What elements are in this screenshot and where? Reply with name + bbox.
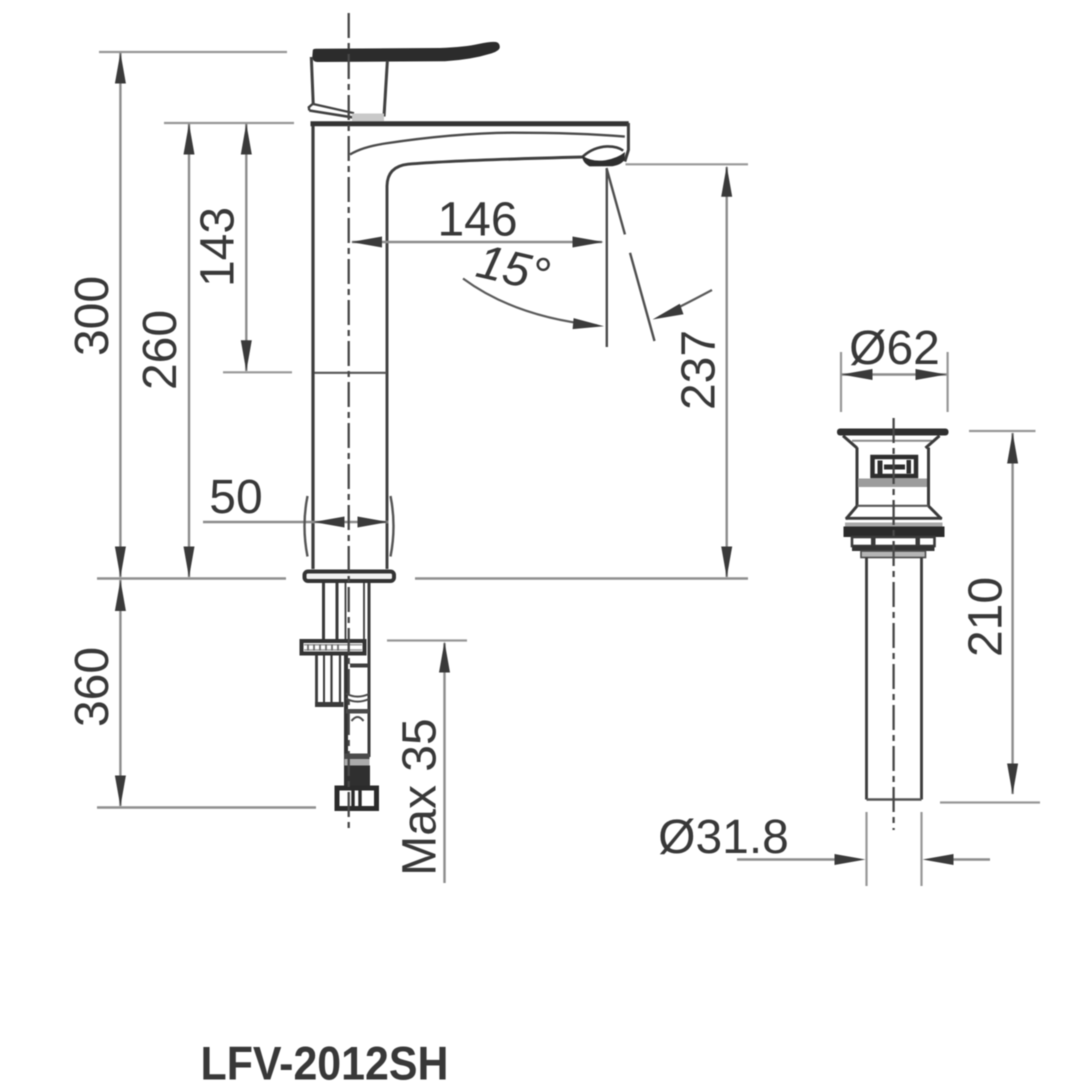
spout nozzle — [583, 146, 623, 156]
mounting hole arcs — [305, 496, 308, 557]
gray band under window — [858, 479, 927, 488]
dimension ticks top left — [99, 51, 287, 53]
svg-text:360: 360 — [66, 647, 119, 727]
faucet body column left edge — [311, 126, 314, 569]
water stream 15 deg dashed line — [607, 168, 655, 341]
dimension Max 35 — [387, 639, 467, 641]
dimension 146 line — [352, 241, 602, 243]
dimension 260 — [188, 124, 190, 577]
faucet centerline — [348, 13, 350, 831]
handle neck shade — [352, 114, 384, 122]
spout arm top bar — [311, 121, 629, 126]
drain throat walls — [857, 448, 929, 507]
dimension 237 — [626, 163, 749, 165]
flare — [846, 506, 942, 519]
dimension 143 — [245, 124, 247, 371]
svg-text:210: 210 — [960, 577, 1013, 657]
hose hex nut — [337, 788, 377, 809]
svg-text:237: 237 — [673, 330, 726, 410]
dimension 300 — [119, 53, 121, 577]
drain centerline — [892, 418, 894, 830]
tailpipe — [867, 558, 922, 800]
svg-text:146: 146 — [437, 194, 517, 247]
svg-text:300: 300 — [66, 276, 119, 356]
water stream extension line — [606, 169, 608, 347]
drain flange top — [837, 429, 949, 436]
faucet body right edge and spout underside — [387, 157, 583, 569]
spout inner upper line — [350, 133, 625, 155]
escutcheon base plate — [305, 572, 395, 582]
dimension O62 — [841, 352, 948, 412]
under-counter tubes — [324, 583, 370, 757]
svg-text:143: 143 — [192, 207, 245, 287]
dimension O31.8 — [867, 812, 922, 886]
svg-text:Ø31.8: Ø31.8 — [658, 811, 789, 864]
faucet handle base — [309, 57, 388, 118]
dimension 360 — [119, 580, 121, 806]
faucet handle lever — [312, 42, 500, 62]
svg-text:Ø62: Ø62 — [849, 322, 940, 375]
svg-text:Max 35: Max 35 — [394, 718, 447, 875]
spout right edge — [625, 123, 629, 162]
countertop lines — [97, 577, 286, 580]
angle arc left — [463, 279, 597, 326]
svg-text:50: 50 — [209, 471, 262, 524]
lower reference line — [97, 806, 316, 809]
svg-text:LFV-2012SH: LFV-2012SH — [201, 1037, 449, 1090]
angle arc right — [659, 290, 712, 317]
dimension 50 — [203, 521, 389, 523]
overflow window — [873, 457, 917, 476]
bell rings — [846, 517, 943, 520]
body joint line — [315, 372, 387, 374]
dimension 210 — [969, 430, 1036, 432]
hose ferrule — [344, 766, 370, 786]
mounting nut — [302, 641, 365, 654]
check valve bracket — [317, 656, 341, 704]
supply hose — [344, 656, 348, 786]
svg-text:260: 260 — [134, 310, 187, 390]
